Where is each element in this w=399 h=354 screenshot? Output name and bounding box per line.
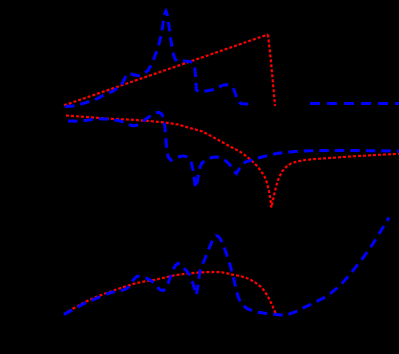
top blue horizontal dashed line right: [310, 102, 399, 105]
bottom red curve: [64, 272, 276, 314]
bottom blue dashed curve: [64, 218, 389, 316]
top blue dashed curve: [65, 11, 254, 107]
middle blue dashed curve: [68, 112, 399, 188]
top red near-vertical drop: [268, 35, 275, 107]
middle red curve: [66, 116, 399, 208]
top red straight line: [64, 35, 268, 106]
